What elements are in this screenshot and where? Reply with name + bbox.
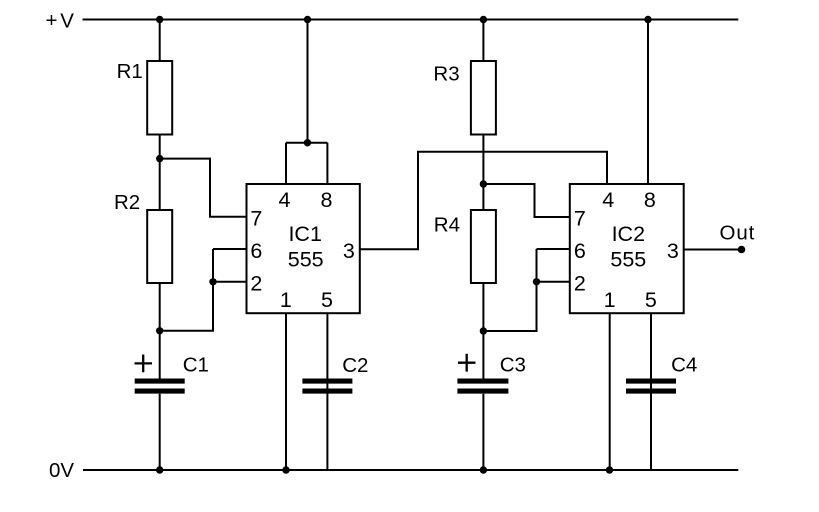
svg-text:4: 4: [279, 188, 291, 212]
polarity + of C1: [135, 355, 153, 373]
svg-text:R2: R2: [114, 191, 140, 214]
resistor R1: [147, 61, 172, 135]
pin 2 label IC1: [250, 272, 262, 296]
svg-text:C1: C1: [183, 354, 209, 377]
svg-text:5: 5: [645, 288, 657, 312]
label R3: [433, 63, 459, 86]
0V rail wire: [83, 469, 738, 471]
wire: R2 bottom to C1 node junction: [159, 283, 161, 331]
label IC1: [288, 222, 321, 246]
svg-text:C3: C3: [500, 354, 526, 377]
svg-text:+: +: [46, 9, 58, 32]
wire: IC2 pin 1 to 0V rail: [609, 313, 611, 470]
op-amp U2: IC2 555 body box: [570, 184, 684, 313]
capacitor C2: [302, 381, 352, 391]
svg-text:IC1: IC1: [288, 222, 321, 246]
svg-text:7: 7: [574, 206, 586, 230]
junction: 0V rail / IC2 pin 1: [606, 466, 613, 473]
resistor R3: [471, 61, 496, 135]
pin 5 label IC2: [645, 288, 657, 312]
svg-text:6: 6: [574, 239, 586, 263]
wire: IC2 pin 8 to +V rail: [647, 20, 649, 185]
svg-text:8: 8: [644, 188, 656, 212]
svg-text:V: V: [60, 9, 74, 32]
svg-text:555: 555: [288, 247, 324, 271]
svg-text:3: 3: [667, 239, 679, 263]
svg-text:5: 5: [321, 288, 333, 312]
label C2: [342, 354, 368, 377]
junction: +V rail / IC2 pin 8: [644, 16, 651, 23]
pin 1 label IC1: [280, 288, 292, 312]
wire: IC2 pin6/pin2 vertical to C3 node: [483, 249, 536, 331]
svg-text:R4: R4: [434, 214, 460, 237]
wire: IC1 pin 4 to reset bracket: [285, 143, 287, 184]
node Out terminal dot: [738, 246, 746, 254]
wire: +V rail to R1 top: [159, 20, 161, 62]
wire: R1/R2 junction to R2 top: [159, 159, 161, 210]
wire: IC2 pin 5 through C4 to 0V rail: [650, 313, 652, 470]
node label Out: [720, 221, 756, 244]
pin 7 label IC1: [250, 206, 262, 230]
label R4: [434, 214, 460, 237]
wire: R3/R4 junction to IC2 pin 7: [483, 184, 569, 217]
label R1: [117, 60, 143, 83]
junction: 0V rail / C1: [156, 466, 163, 473]
wire: C3 bottom plate to 0V rail: [482, 394, 484, 470]
svg-text:555: 555: [610, 247, 646, 271]
svg-text:6: 6: [250, 239, 262, 263]
capacitor C1: [135, 381, 185, 391]
junction: +V rail / IC1 pins 4-8: [304, 16, 311, 23]
wire: R1/R2 junction to IC1 pin 7: [160, 159, 247, 217]
svg-text:3: 3: [343, 239, 355, 263]
junction: R1/R2/pin7 node: [156, 155, 163, 162]
label C1: [183, 354, 209, 377]
wire: IC1 pin 3 to IC2 pin 4: [360, 152, 607, 250]
capacitor C4: [626, 381, 676, 391]
junction: +V rail / R1: [156, 16, 163, 23]
label IC2: [612, 222, 645, 246]
svg-text:Out: Out: [720, 221, 756, 244]
pin 3 label IC1: [343, 239, 355, 263]
junction: reset bracket IC1: [304, 139, 311, 146]
net label 0V: [49, 459, 74, 482]
junction: R3/R4/pin7 node: [480, 180, 487, 187]
pin 4 label IC1: [279, 188, 291, 212]
value label 555 of IC1: [288, 247, 324, 271]
wire: C1 bottom plate to 0V rail: [159, 394, 161, 470]
label C3: [500, 354, 526, 377]
junction: 0V rail / IC1 pin 1: [282, 466, 289, 473]
junction: IC1 pin2/pin6 node: [209, 278, 216, 285]
wire: C3 node to C3 top plate: [482, 331, 484, 379]
junction: +V rail / R3: [480, 16, 487, 23]
junction: IC2 pin2/pin6 node: [533, 278, 540, 285]
svg-text:2: 2: [250, 272, 262, 296]
resistor R2: [147, 210, 172, 283]
svg-text:4: 4: [602, 188, 614, 212]
wire: C1 node to C1 top plate: [159, 331, 161, 379]
pin 1 label IC2: [604, 288, 616, 312]
wire: IC1 pin4-pin8 bracket: [286, 142, 327, 144]
net label +V: [46, 9, 75, 32]
label R2: [114, 191, 140, 214]
junction: 0V rail / C3: [480, 466, 487, 473]
svg-text:1: 1: [280, 288, 292, 312]
pin 6 label IC2: [574, 239, 586, 263]
wire: +V rail to R3 top: [482, 20, 484, 62]
svg-text:R1: R1: [117, 60, 143, 83]
pin 3 label IC2: [667, 239, 679, 263]
polarity + of C3: [458, 354, 476, 372]
wire: R4 bottom to C3 node junction: [482, 283, 484, 331]
svg-text:C4: C4: [671, 354, 697, 377]
wire: IC2 pin 6 horizontal: [537, 248, 570, 250]
svg-text:8: 8: [321, 188, 333, 212]
svg-text:7: 7: [250, 206, 262, 230]
svg-text:2: 2: [574, 272, 586, 296]
junction: R2/C1 node: [156, 327, 163, 334]
label C4: [671, 354, 697, 377]
svg-text:1: 1: [604, 288, 616, 312]
pin 8 label IC1: [321, 188, 333, 212]
wire: IC1 pin 2 horizontal: [213, 281, 247, 283]
pin 7 label IC2: [574, 206, 586, 230]
wire: IC1 pin 8 to reset bracket: [326, 143, 328, 184]
pin 5 label IC1: [321, 288, 333, 312]
wire: R3/R4 junction to R4 top: [482, 184, 484, 210]
svg-text:C2: C2: [342, 354, 368, 377]
resistor R4: [471, 210, 496, 283]
wire: IC1 pin 1 to 0V rail: [285, 313, 287, 470]
pin 4 label IC2: [602, 188, 614, 212]
svg-text:R3: R3: [433, 63, 459, 86]
wire: IC1 pin6/pin2 vertical to C1 node: [160, 249, 213, 331]
wire: IC2 pin 3 to Out terminal: [684, 249, 742, 251]
wire: IC2 pin 2 horizontal: [537, 281, 570, 283]
+V rail wire: [83, 19, 739, 21]
wire: IC1 pin 5 through C2 to 0V rail: [326, 313, 328, 470]
value label 555 of IC2: [610, 247, 646, 271]
pin 8 label IC2: [644, 188, 656, 212]
junction: R4/C3 node: [480, 327, 487, 334]
wire: IC1 pin 6 horizontal: [213, 248, 247, 250]
capacitor C3: [457, 381, 508, 391]
svg-text:IC2: IC2: [612, 222, 645, 246]
wire: R1 bottom to R1/R2 junction: [159, 135, 161, 159]
svg-text:0V: 0V: [49, 459, 74, 482]
op-amp U1: IC1 555 body box: [247, 184, 360, 313]
pin 6 label IC1: [250, 239, 262, 263]
pin 2 label IC2: [574, 272, 586, 296]
wire: bracket to +V rail: [307, 20, 309, 143]
wire: R3 bottom to R3/R4 junction: [482, 135, 484, 185]
